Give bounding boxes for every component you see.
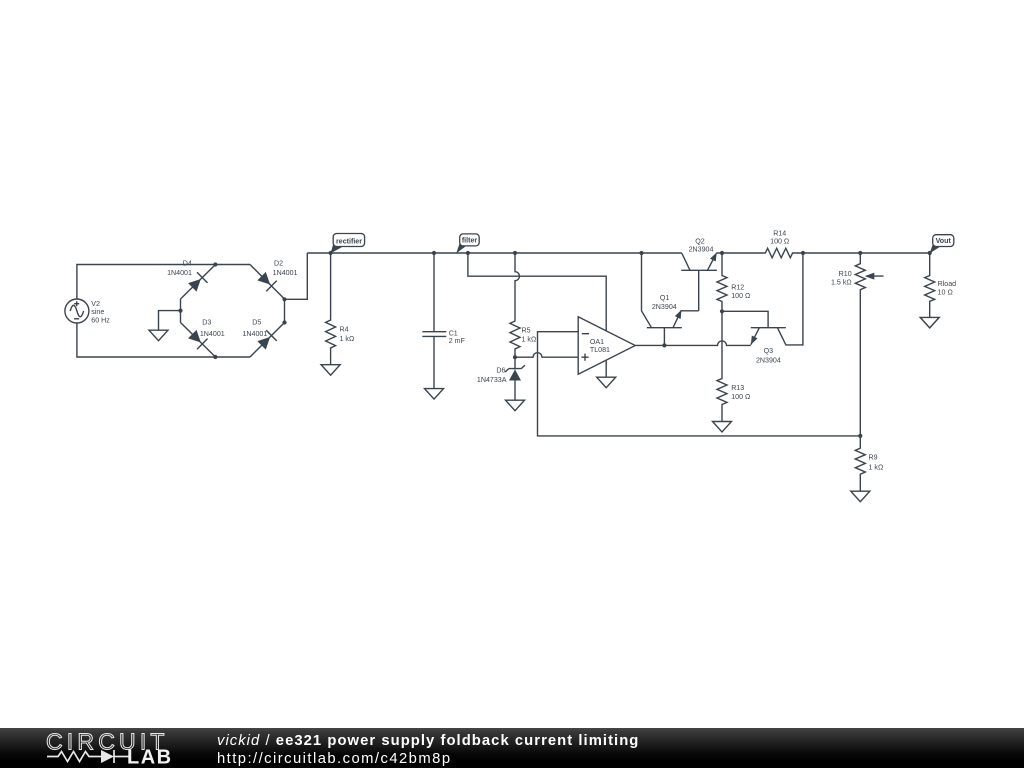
svg-text:R10: R10 — [839, 270, 852, 278]
node bridge out bottom — [282, 320, 286, 324]
svg-text:100 Ω: 100 Ω — [731, 292, 750, 300]
voltage source V2 — [65, 299, 110, 324]
svg-text:V2: V2 — [91, 300, 100, 308]
node Vout — [928, 251, 932, 255]
wire bridge output riser — [285, 253, 308, 299]
ground (R4) — [321, 365, 340, 376]
svg-text:2N3904: 2N3904 — [756, 356, 781, 364]
svg-text:2 mF: 2 mF — [449, 337, 466, 345]
node Q3 collector on rail — [801, 251, 805, 255]
diode D5 — [242, 318, 284, 357]
resistor R12 and R13 chain — [717, 253, 750, 422]
node feedback / R9 — [858, 434, 862, 438]
svg-text:2N3904: 2N3904 — [652, 303, 677, 311]
svg-text:60 Hz: 60 Hz — [91, 316, 110, 324]
ground (R13) — [713, 422, 732, 433]
svg-text:R13: R13 — [731, 384, 744, 392]
svg-text:OA1: OA1 — [590, 338, 604, 346]
node C1 top — [432, 251, 436, 255]
svg-text:1N4001: 1N4001 — [242, 330, 267, 338]
svg-text:Q1: Q1 — [660, 294, 670, 302]
wire V2 bottom to bridge bottom — [77, 323, 250, 357]
diode D4 — [167, 259, 215, 299]
svg-text:Q3: Q3 — [764, 347, 774, 355]
resistor R4 — [326, 253, 355, 365]
flag Vout — [930, 235, 954, 254]
zener diode D6 — [477, 357, 525, 400]
svg-text:D5: D5 — [252, 318, 261, 326]
svg-text:1N4001: 1N4001 — [273, 269, 298, 277]
ground (D6) — [506, 400, 525, 411]
wire bridge right vertical — [284, 299, 286, 322]
svg-text:rectifier: rectifier — [336, 237, 362, 245]
svg-text:10 Ω: 10 Ω — [938, 289, 953, 297]
node R5 top — [513, 251, 517, 255]
wire opamp output with hop over R12/R13 — [635, 341, 751, 346]
node R12 bottom / Q3 base — [720, 309, 724, 313]
svg-text:TL081: TL081 — [590, 346, 610, 354]
node bottom bridge — [213, 355, 217, 359]
svg-text:1N4733A: 1N4733A — [477, 376, 507, 384]
wire V2 top to bridge top — [77, 265, 250, 300]
svg-text:R9: R9 — [869, 453, 878, 461]
wire rail right with resistor R14 — [716, 229, 929, 257]
svg-text:R5: R5 — [522, 326, 531, 334]
resistor R9 — [855, 436, 883, 491]
capacitor C1 — [422, 253, 465, 389]
transistor Q3 — [722, 253, 803, 364]
node bridge out top — [282, 297, 286, 301]
resistor Rload — [925, 253, 956, 317]
footer title text — [217, 733, 639, 749]
svg-text:D2: D2 — [274, 259, 283, 267]
svg-text:Vout: Vout — [936, 237, 952, 245]
wire noninverting input with hop — [515, 353, 578, 357]
svg-text:1.5 kΩ: 1.5 kΩ — [831, 279, 852, 287]
svg-text:D6: D6 — [496, 367, 505, 375]
footer url text — [217, 751, 452, 767]
ground (C1) — [425, 389, 444, 400]
svg-text:100 Ω: 100 Ω — [731, 393, 750, 401]
svg-text:2N3904: 2N3904 — [689, 245, 714, 253]
resistor R5 — [510, 253, 536, 357]
svg-text:1N4001: 1N4001 — [167, 269, 192, 277]
wire opamp VCC branch — [468, 253, 606, 331]
op-amp OA1 — [578, 317, 635, 375]
svg-text:1N4001: 1N4001 — [200, 330, 225, 338]
node VCC tap — [466, 251, 470, 255]
node rectifier — [329, 251, 333, 255]
svg-text:filter: filter — [462, 237, 478, 245]
svg-text:1 kΩ: 1 kΩ — [869, 463, 884, 471]
flag rectifier — [331, 234, 365, 254]
wire inverting input + feedback — [538, 332, 861, 436]
wire main rail left — [307, 252, 682, 254]
wire opamp VEE — [605, 361, 607, 378]
node Q1 collector on rail — [639, 251, 643, 255]
svg-text:Rload: Rload — [938, 280, 957, 288]
ground (R9) — [851, 491, 870, 502]
wire ground tap — [159, 311, 181, 331]
potentiometer R10 — [831, 253, 883, 436]
svg-text:R12: R12 — [731, 283, 744, 291]
transistor Q1 — [642, 253, 699, 345]
diode D2 — [250, 259, 298, 299]
wire bridge left vertical — [180, 299, 182, 323]
ground (Rload) — [920, 317, 939, 328]
node ground tap — [178, 309, 182, 313]
node R10 top — [858, 251, 862, 255]
footer bar — [0, 728, 1024, 768]
svg-text:D4: D4 — [183, 259, 192, 267]
svg-text:R4: R4 — [340, 325, 349, 333]
diode D3 — [181, 318, 225, 357]
ground (bridge) — [149, 330, 168, 341]
svg-text:Q2: Q2 — [695, 237, 705, 245]
svg-text:D3: D3 — [202, 318, 211, 326]
flag filter — [456, 234, 479, 254]
svg-text:100 Ω: 100 Ω — [770, 238, 789, 246]
svg-text:1 kΩ: 1 kΩ — [522, 336, 537, 344]
svg-text:R14: R14 — [773, 229, 786, 237]
node Q2 emitter / R12 — [720, 251, 724, 255]
svg-text:1 kΩ: 1 kΩ — [340, 335, 355, 343]
node R5 bottom — [513, 355, 517, 359]
CircuitLab logo — [0, 728, 220, 768]
transistor Q2 — [681, 237, 719, 310]
svg-text:sine: sine — [91, 308, 104, 316]
node top bridge — [213, 262, 217, 266]
node output / Q1 base — [662, 343, 666, 347]
svg-text:LAB: LAB — [127, 747, 173, 768]
ground (op-amp) — [597, 377, 616, 388]
